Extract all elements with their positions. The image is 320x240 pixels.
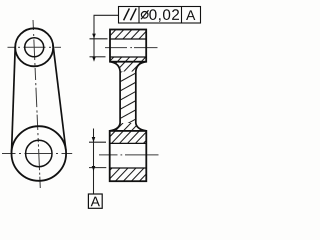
section: big-end hole top edge [110,142,147,144]
diameter symbol [141,12,148,19]
link right side tangent line [53,45,66,150]
dimension arrow (down) at small-end hole [92,34,96,39]
small-end hole top extension line [90,38,108,40]
small-end horizontal centerline [8,46,15,48]
big-end dimension line to datum [93,129,95,195]
section: big-end boss outline [110,131,147,181]
dimension arrow (down) at big-end hole [92,137,96,142]
tolerance value 0,02 [149,9,179,22]
section: big-end hole bottom edge [110,167,147,169]
small-end hole bottom extension line [90,56,106,58]
section: big-end hole centerline [99,154,118,156]
big-end hole circle [26,140,52,166]
link axis centerline [32,20,34,30]
small-end hole circle [25,38,44,57]
leader from feature control frame [94,15,119,57]
small-end boss outer circle [15,28,53,66]
section: small-end hole top edge [110,38,146,40]
section: small-end boss outline [110,30,146,62]
big-end hole top extension line [89,141,106,143]
datum symbol box [88,194,102,208]
datum letter A [91,197,100,207]
section: stem right outline with fillets [136,62,147,131]
datum reference letter A in frame [186,10,195,20]
dimension arrow (below) at small-end hole [92,57,96,62]
parallelism symbol [124,8,130,20]
frame divider 2 [181,7,183,24]
link left side tangent line [12,47,16,153]
frame divider 1 [138,7,140,24]
big-end horizontal centerline [2,153,16,155]
section: stem left outline with fillets [110,62,120,131]
section: small-end hole bottom edge [110,56,146,58]
dimension arrow (below) at big-end hole [92,166,96,171]
big-end boss outer circle [12,126,67,181]
feature control frame box [119,7,201,24]
big-end hole bottom extension line [89,167,106,169]
section: small-end hole centerline [105,47,127,49]
